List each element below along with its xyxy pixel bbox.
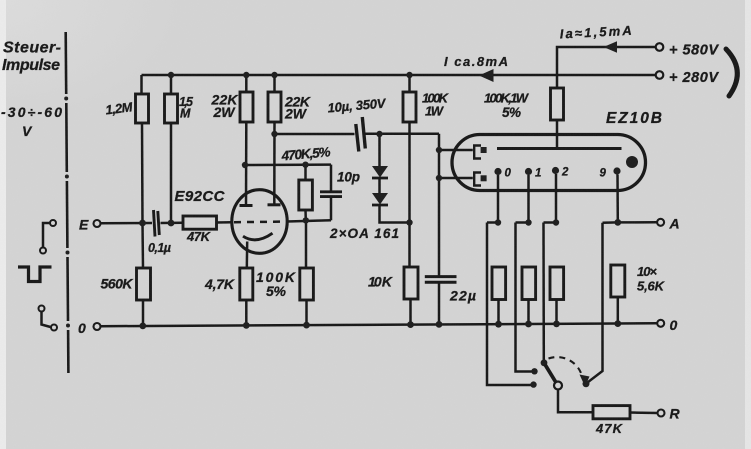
svg-text:+ 280V: + 280V xyxy=(669,70,719,86)
svg-text:Steuer-: Steuer- xyxy=(3,40,61,57)
svg-text:Impulse: Impulse xyxy=(2,57,60,74)
svg-text:10 K: 10 K xyxy=(368,274,393,290)
svg-text:0,1µ: 0,1µ xyxy=(148,241,171,255)
svg-text:R: R xyxy=(670,406,681,422)
svg-text:A: A xyxy=(669,216,680,232)
svg-text:100K,1W: 100K,1W xyxy=(484,91,530,106)
svg-text:47K: 47K xyxy=(595,421,624,436)
svg-text:560K: 560K xyxy=(101,276,134,292)
svg-text:2×OA 161: 2×OA 161 xyxy=(329,226,399,241)
svg-text:0: 0 xyxy=(78,320,86,336)
svg-text:M: M xyxy=(180,107,191,121)
svg-text:5,6K: 5,6K xyxy=(637,279,666,294)
svg-text:E92CC: E92CC xyxy=(175,188,226,205)
svg-text:9: 9 xyxy=(600,168,607,180)
svg-text:4,7K: 4,7K xyxy=(204,276,235,292)
svg-text:EZ10B: EZ10B xyxy=(606,110,662,127)
svg-text:10×: 10× xyxy=(637,264,657,279)
svg-text:5%: 5% xyxy=(266,283,287,299)
svg-text:5%: 5% xyxy=(502,105,521,120)
svg-text:10p: 10p xyxy=(337,170,360,185)
svg-text:2W: 2W xyxy=(213,104,237,120)
svg-text:22µ: 22µ xyxy=(449,288,476,304)
svg-text:47K: 47K xyxy=(186,229,212,244)
svg-text:I ca.8mA: I ca.8mA xyxy=(444,54,508,69)
svg-text:+ 580V: + 580V xyxy=(669,43,719,59)
svg-text:E: E xyxy=(79,217,89,233)
svg-text:1: 1 xyxy=(535,168,541,180)
svg-text:0: 0 xyxy=(505,168,512,180)
svg-text:2: 2 xyxy=(561,167,569,179)
svg-text:0: 0 xyxy=(670,317,678,333)
svg-text:1W: 1W xyxy=(425,104,445,119)
svg-text:2W: 2W xyxy=(284,106,308,122)
